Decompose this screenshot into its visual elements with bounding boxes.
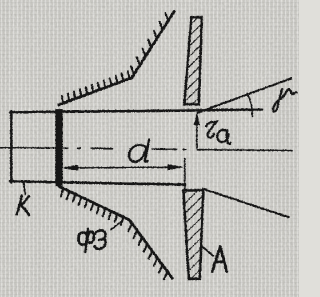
extension line at anode plane xyxy=(184,159,186,190)
leader line A xyxy=(201,245,214,256)
anode aperture plate lower A (hatched) xyxy=(183,190,203,279)
electron trajectory upper (gamma ray line) xyxy=(197,78,291,113)
dimension d left arrowhead xyxy=(63,165,78,170)
hatching ticks upper steep segment xyxy=(131,13,168,74)
anode aperture plate upper (hatched) xyxy=(184,17,202,104)
angle gamma arc xyxy=(247,94,252,117)
label d xyxy=(129,140,149,162)
hatching ticks lower steep segment xyxy=(128,224,167,280)
label A xyxy=(212,247,227,272)
electron trajectory lower diverging line xyxy=(203,189,289,218)
wire: top tube boundary line xyxy=(10,109,262,112)
r_a arrow xyxy=(196,117,198,148)
focusing electrode upper contour (photoelement cone) xyxy=(59,11,175,105)
label K xyxy=(17,196,29,215)
dimension d right arrowhead xyxy=(168,164,183,169)
leader line K xyxy=(24,183,26,194)
label r_a xyxy=(206,121,230,144)
photocathode layer bar K xyxy=(55,109,62,186)
label gamma xyxy=(273,89,297,112)
dimension d line xyxy=(64,166,181,169)
hatching ticks lower shallow segment xyxy=(61,188,124,224)
focusing electrode lower contour (photoelement cone) xyxy=(59,186,173,278)
label FE (Cyrillic Phi-E) xyxy=(78,228,105,251)
cathode body left edge xyxy=(10,111,13,182)
hatching ticks upper shallow segment xyxy=(62,71,130,103)
leader line FE xyxy=(111,221,123,230)
wire: bottom tube boundary line xyxy=(10,181,185,184)
node axis: dash-dot optical axis xyxy=(0,147,292,150)
